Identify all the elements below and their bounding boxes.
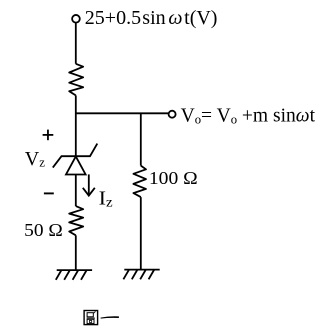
label: − (zener bottom polarity), drawn [44,192,54,194]
wire: 50Ω to ground (left) [75,235,77,270]
svg-text:Vo= Vo +m sinωt: Vo= Vo +m sinωt [181,105,316,127]
resistor R3 (100 Ω) [133,166,146,198]
input terminal (open circle, top) [72,15,80,23]
label: + (zener top polarity), drawn [43,130,54,141]
zener diode DZ cathode bar with bent ends [53,144,98,168]
caption: 圖 (Figure) drawn as vector glyph [84,311,98,325]
ground (left): bar with hatching [56,270,92,280]
wire: node A down to resistor 100Ω [140,113,142,165]
caption: 一 (one) drawn as vector stroke [101,316,119,318]
wire: node A horizontal to output terminal [75,112,168,114]
wire: 100Ω to ground (right) [140,197,142,270]
output terminal Vo (open circle) [169,111,176,118]
arrow: Iz current (down) [83,174,95,195]
wire: resistor R1 to zener (through node A) [75,95,77,156]
wire: terminal to resistor R1 [75,23,77,64]
resistor R1 (series resistor, top) [69,64,83,96]
wire: zener anode to resistor 50Ω [75,175,77,207]
svg-text:50 Ω: 50 Ω [24,220,63,240]
ground (right): bar with hatching [123,270,159,280]
svg-text:100 Ω: 100 Ω [149,168,198,188]
svg-text:25+0.5sinωt(V): 25+0.5sinωt(V) [85,7,218,29]
resistor R2 (50 Ω) [69,206,83,235]
zener diode DZ triangle (anode, pointing up) [66,156,86,174]
